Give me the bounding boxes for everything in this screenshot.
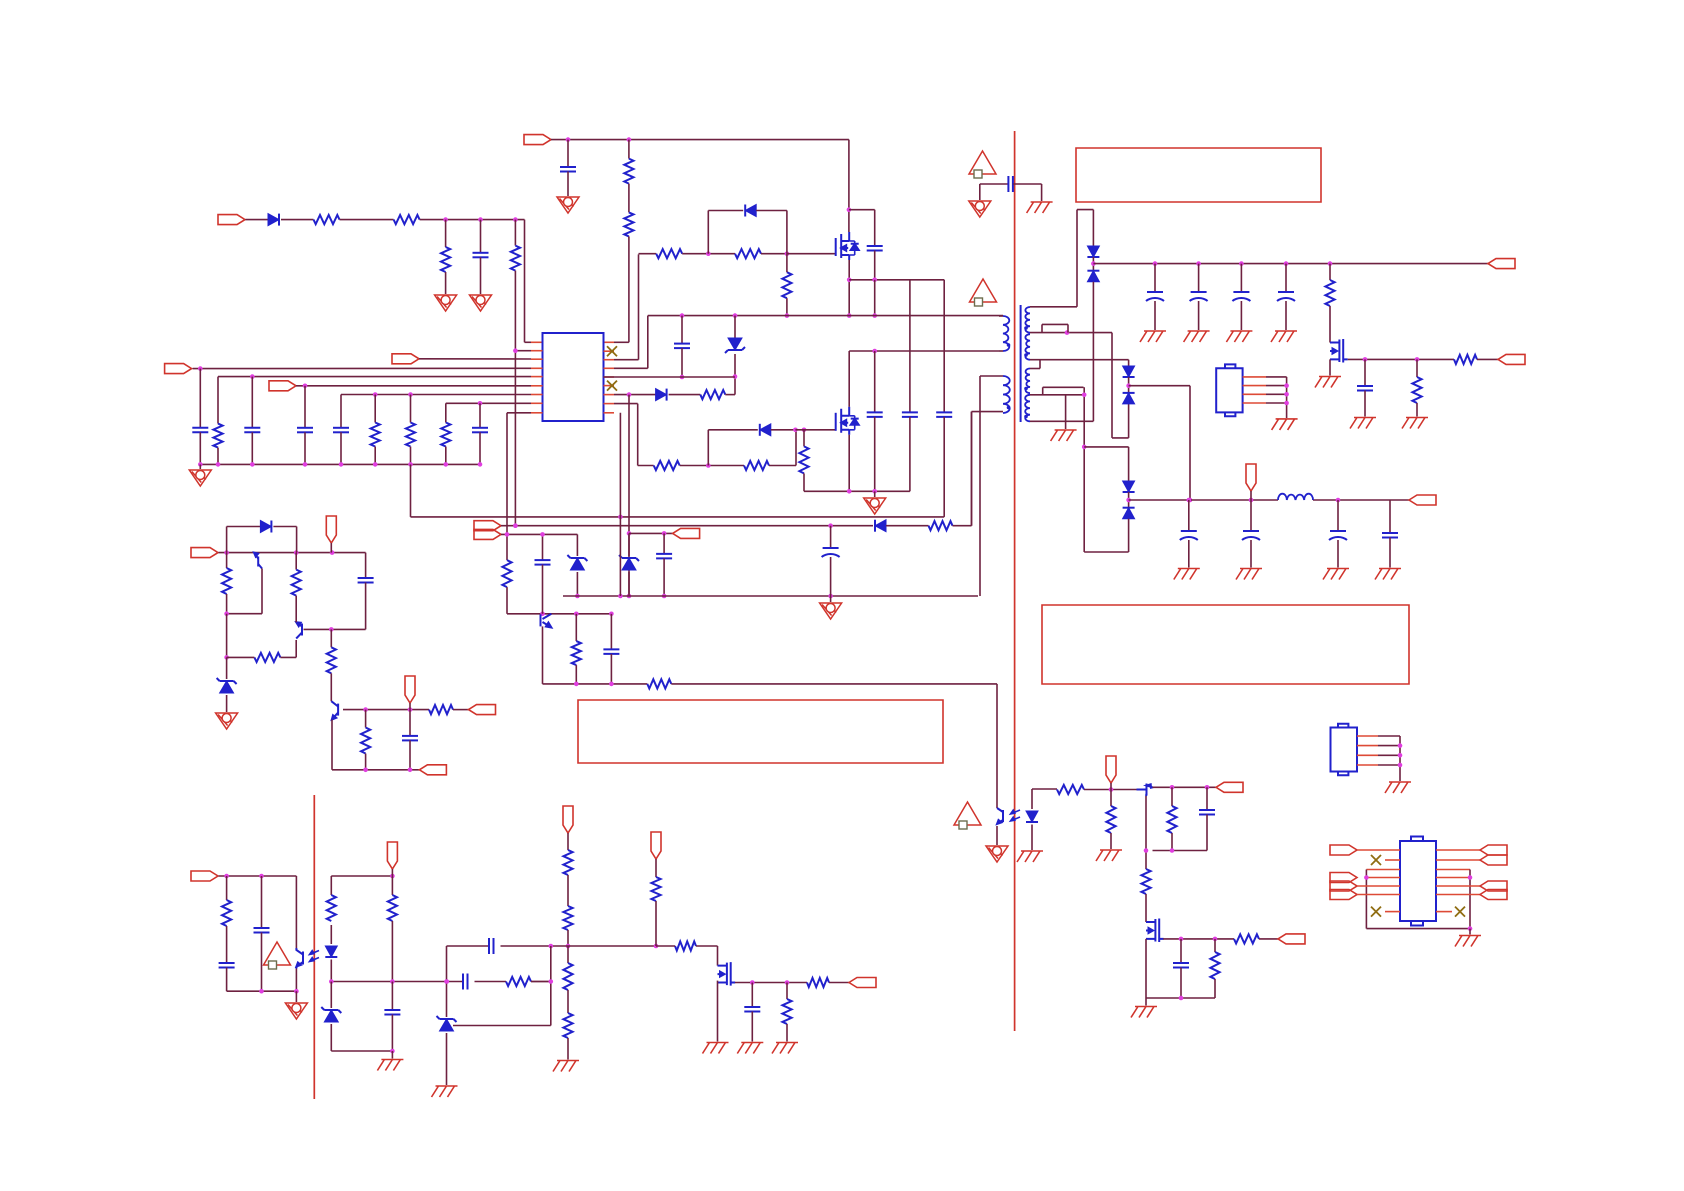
node junctions on input net xyxy=(443,217,448,222)
wire xyxy=(193,367,531,369)
ground xyxy=(1350,418,1376,429)
power input flag P1 xyxy=(218,215,245,225)
capacitor C24 xyxy=(535,559,551,561)
wire aux return xyxy=(971,412,973,526)
capacitor C28 xyxy=(219,962,235,964)
capacitor C4 xyxy=(251,377,253,428)
flag VFB xyxy=(392,354,419,364)
flag low xyxy=(419,765,446,775)
wire emitter xyxy=(1145,796,1147,851)
ground xyxy=(1375,569,1401,580)
wire 533 row xyxy=(629,532,673,534)
ground xyxy=(1236,569,1262,580)
X mark xyxy=(1436,911,1452,913)
ground xyxy=(199,464,201,469)
zener diode ZD3 xyxy=(628,533,630,556)
resistor R1 xyxy=(314,215,340,224)
flag U4 pin1 xyxy=(1330,845,1357,855)
resistor R3 xyxy=(445,220,447,247)
ground xyxy=(1272,419,1298,430)
resistor R13 xyxy=(782,272,791,298)
12V rail wire xyxy=(1129,499,1278,501)
resistor R45 xyxy=(1110,790,1112,807)
ground xyxy=(986,846,1008,862)
wire xyxy=(420,219,525,221)
resistor R35 xyxy=(563,906,572,930)
flag down Vs2 xyxy=(651,832,661,859)
wire xyxy=(725,394,735,396)
resistor R9 xyxy=(410,395,412,423)
MOSFET Q10 xyxy=(1146,919,1164,943)
resistor R31 xyxy=(226,876,228,900)
wire pin 394.6 diode row xyxy=(614,394,656,396)
ground xyxy=(1226,331,1252,342)
wire box outline xyxy=(1366,869,1400,871)
capacitor C6 xyxy=(340,395,342,428)
wire hop A xyxy=(1042,323,1068,325)
wire xyxy=(331,1050,392,1052)
chassis ground xyxy=(1041,184,1043,201)
output flag 24V xyxy=(1488,259,1515,269)
transformer T1 secondary winding 2 xyxy=(1025,334,1030,360)
wire pin 412.8 row xyxy=(507,412,531,414)
resistor R17 xyxy=(803,430,805,447)
wire xyxy=(614,403,638,405)
transformer T1 secondary winding 4 xyxy=(1025,395,1030,422)
wire xyxy=(829,982,849,984)
ground xyxy=(1131,1007,1157,1018)
MOSFET Q2 xyxy=(836,407,859,435)
zener diode ZD5 xyxy=(330,982,332,1009)
isolation barrier line xyxy=(1014,131,1016,1031)
wire xyxy=(953,525,972,527)
transistor Q5 xyxy=(257,557,259,567)
capacitor C33 xyxy=(751,983,753,1008)
capacitor C16 xyxy=(1285,264,1287,292)
resistor R10 xyxy=(445,403,447,422)
ground xyxy=(285,1003,307,1019)
transistor Q7 xyxy=(337,704,339,716)
wire xyxy=(524,220,526,343)
dual diode D6 xyxy=(1128,360,1130,366)
dual diode D7 xyxy=(1123,481,1135,492)
ground xyxy=(470,295,492,311)
resistor R15 xyxy=(654,461,680,470)
warning triangle 4 xyxy=(954,802,981,829)
ground xyxy=(1271,331,1297,342)
wire xyxy=(332,769,419,771)
capacitor C7 xyxy=(479,403,481,428)
resistor R48 xyxy=(1234,934,1259,943)
capacitor C32 xyxy=(462,974,464,990)
wire xyxy=(245,219,268,221)
wire xyxy=(619,413,621,596)
capacitor C30 xyxy=(391,982,393,1011)
resistor R19 xyxy=(1454,355,1477,364)
resistor R33 xyxy=(391,876,393,895)
IC U4 xyxy=(1400,841,1436,921)
ground xyxy=(432,1086,458,1097)
dual diode D5 xyxy=(1087,246,1099,257)
diode D1 xyxy=(268,214,279,226)
wire xyxy=(1084,551,1128,553)
resistor R4 xyxy=(514,220,516,246)
resistor R30 xyxy=(365,710,367,728)
capacitor C29 xyxy=(261,876,263,928)
optocoupler U2 phototransistor xyxy=(302,952,304,965)
X mark xyxy=(1385,911,1400,913)
MOSFET Q3 xyxy=(1330,339,1348,363)
ground xyxy=(1329,359,1331,375)
wire drain Q2 xyxy=(848,351,850,407)
resistor R38 xyxy=(563,1013,572,1038)
optocoupler U3 phototransistor xyxy=(996,806,998,808)
capacitor C12 xyxy=(943,280,945,413)
diode D9 xyxy=(226,527,228,553)
connector CN2 xyxy=(1331,728,1358,772)
resistor R12 xyxy=(735,249,761,258)
ground bus wire xyxy=(200,463,480,465)
wire xyxy=(1436,869,1470,871)
X mark xyxy=(1385,859,1400,861)
resistor R22 xyxy=(502,560,511,587)
winding polarity dots xyxy=(1007,343,1011,347)
wire drain Q1 xyxy=(848,140,850,232)
wire xyxy=(717,981,719,1042)
connector CN1 xyxy=(1216,368,1242,412)
wire xyxy=(219,552,366,554)
capacitor C2 xyxy=(567,140,569,167)
wire xyxy=(1366,877,1400,879)
optocoupler U3 light arrows xyxy=(1011,810,1021,814)
resistor R20 xyxy=(1416,359,1418,377)
output flag 2 xyxy=(1498,354,1525,364)
capacitor C34 xyxy=(1206,787,1208,810)
diode D8 xyxy=(875,520,886,532)
flags U4 right bottom xyxy=(1480,881,1507,891)
resistor R37 xyxy=(567,946,569,963)
wire xyxy=(671,683,997,685)
IC U1 right pin stubs xyxy=(604,350,615,352)
flags U4 left xyxy=(1330,873,1357,883)
output flag 12V xyxy=(1409,495,1436,505)
MOSFET Q1 xyxy=(836,232,859,260)
ground xyxy=(567,945,569,947)
snubber diode D2 xyxy=(707,211,709,254)
flag PROT xyxy=(849,978,876,988)
wire sec tap A xyxy=(1030,332,1112,334)
wire xyxy=(1153,850,1208,852)
capacitor C17 xyxy=(1364,359,1366,386)
no-connect X marks xyxy=(607,346,617,356)
resistor R23 xyxy=(575,614,577,641)
transformer T1 primary winding 2 xyxy=(1003,376,1010,413)
ground xyxy=(703,1043,729,1054)
capacitor C14 xyxy=(1198,264,1200,292)
resistor R14 xyxy=(700,390,725,399)
optocoupler U2 light arrows xyxy=(310,951,320,955)
primary ground bus wire xyxy=(804,490,910,492)
capacitor C35 xyxy=(1180,939,1182,963)
ground xyxy=(830,596,832,602)
flag COMP xyxy=(269,381,296,391)
wire U4 right pins xyxy=(1436,849,1480,851)
wire xyxy=(506,413,508,560)
resistor R6 xyxy=(628,184,630,213)
connector CN1 pin wires xyxy=(1243,376,1266,378)
resistor R11 xyxy=(656,249,682,258)
wire xyxy=(886,525,929,527)
flag FB xyxy=(191,871,218,881)
flag out xyxy=(1216,782,1243,792)
optocoupler U3 LED xyxy=(1031,789,1033,809)
flag CT xyxy=(165,364,192,374)
wire xyxy=(227,990,297,992)
transformer T1 secondary winding 3 xyxy=(1026,369,1030,394)
ground xyxy=(553,1061,579,1072)
wire aux top xyxy=(980,375,1003,377)
capacitor C31 xyxy=(488,938,490,954)
zener diode ZD4 xyxy=(226,657,228,679)
resistor R42 xyxy=(807,978,829,987)
PWM controller IC U1 xyxy=(543,333,604,421)
resistor R21 xyxy=(929,521,953,530)
ground xyxy=(1402,418,1428,429)
wire xyxy=(656,945,675,947)
capacitor C5 xyxy=(304,386,306,428)
wire xyxy=(1145,851,1147,870)
capacitor C13 xyxy=(1154,264,1156,292)
resistor R28 xyxy=(330,629,332,647)
wire xyxy=(543,683,648,685)
diode D3 xyxy=(656,389,667,401)
capacitor C20 xyxy=(1337,500,1339,531)
wire xyxy=(1477,358,1498,360)
wire xyxy=(447,945,490,947)
warning triangle 1 xyxy=(969,151,996,178)
snubber diode D4 xyxy=(707,430,709,466)
flag enable xyxy=(191,548,218,558)
resistor R2 xyxy=(394,215,420,224)
note box 1 xyxy=(1076,148,1321,202)
wire pin 377 xyxy=(604,376,736,378)
resistor R16 xyxy=(744,461,769,470)
wire sec top to rectifier xyxy=(1030,306,1077,308)
ground xyxy=(874,491,876,497)
capacitor C1 xyxy=(480,220,482,253)
resistor R7 xyxy=(217,377,219,424)
flag DIM xyxy=(1278,934,1305,944)
rail wire B xyxy=(501,525,873,527)
capacitor C27 xyxy=(409,710,411,736)
capacitor C15 xyxy=(1240,264,1242,292)
capacitor C3 xyxy=(199,369,201,428)
wire to lower rail xyxy=(410,464,412,517)
transformer T1 primary winding 1 xyxy=(1003,316,1009,351)
ground xyxy=(1174,569,1200,580)
transistor Q6 xyxy=(301,624,303,636)
wire xyxy=(446,946,448,1017)
wire xyxy=(507,613,611,615)
transistor Q9 xyxy=(1146,784,1148,796)
snubber capacitor C8 xyxy=(849,209,875,211)
capacitor C21 xyxy=(1389,500,1391,533)
wire pin 394.5 row xyxy=(341,394,531,396)
wire from pin to lower flag net xyxy=(628,395,630,596)
wire xyxy=(1145,939,1147,998)
resistor R8 xyxy=(374,395,376,423)
resistor R34 xyxy=(563,850,572,875)
wire xyxy=(1357,885,1400,887)
resistor R47 xyxy=(1141,869,1150,894)
wire to IC pin xyxy=(614,341,629,343)
warning triangle 3 xyxy=(264,942,291,969)
wire xyxy=(1129,385,1190,387)
wire xyxy=(1366,928,1470,930)
resistor R25 xyxy=(226,553,228,568)
capacitor C23 xyxy=(830,526,832,548)
warning triangle 2 xyxy=(970,279,997,306)
capacitor C10 xyxy=(874,351,876,412)
wire xyxy=(295,876,297,948)
ground xyxy=(216,713,238,729)
wire xyxy=(453,709,469,711)
resistor R5 xyxy=(628,140,630,159)
resistor R32 xyxy=(330,876,332,895)
wire flag B net xyxy=(501,533,577,535)
wire xyxy=(761,253,787,255)
wire Q10 out xyxy=(1163,938,1234,940)
optocoupler U2 LED xyxy=(330,925,332,944)
ground xyxy=(557,197,579,213)
feedback wire xyxy=(331,981,463,983)
wire source Q1 xyxy=(848,260,850,316)
wire xyxy=(1357,849,1400,851)
wire xyxy=(542,534,544,560)
wire xyxy=(669,394,701,396)
ground xyxy=(377,1060,403,1071)
wire xyxy=(1111,333,1113,438)
wire xyxy=(227,613,262,615)
ground xyxy=(1323,569,1349,580)
ground xyxy=(1096,850,1122,861)
capacitor C25 xyxy=(610,614,612,650)
VCC rail wire xyxy=(551,139,849,141)
flag down VCC2 xyxy=(1246,464,1256,491)
flag down Vaux xyxy=(326,516,336,543)
wire sec bottom xyxy=(1030,420,1093,422)
wire center tap xyxy=(1030,394,1084,396)
resistor R29 xyxy=(429,705,453,714)
resistor R26 xyxy=(254,653,280,662)
wire xyxy=(849,279,944,281)
ground xyxy=(1017,851,1043,862)
wire pin 377 row xyxy=(218,376,531,378)
ground xyxy=(435,295,457,311)
resistor R43 xyxy=(786,983,788,1000)
flags U4 right top xyxy=(1480,845,1507,855)
wire xyxy=(1146,997,1215,999)
wire xyxy=(1032,788,1057,790)
inductor L1 xyxy=(1278,494,1313,500)
transformer T1 secondary winding 1 xyxy=(1025,307,1030,333)
zener reference TL431 xyxy=(437,1016,457,1031)
ground xyxy=(737,1043,763,1054)
wire xyxy=(1084,789,1137,791)
wire xyxy=(296,385,531,387)
IC U1 left pin stubs xyxy=(531,350,543,352)
wire xyxy=(874,280,876,316)
capacitor C11 xyxy=(909,280,911,413)
ground xyxy=(1051,430,1077,441)
connector CN2 pin wires xyxy=(1357,735,1378,737)
wire base Q6 xyxy=(304,628,366,630)
wire xyxy=(531,981,551,983)
wire xyxy=(769,465,796,467)
transformer core xyxy=(1020,305,1022,422)
flag down Vaux2 xyxy=(405,676,415,703)
wire xyxy=(1084,446,1128,448)
zener diode ZD2 xyxy=(567,555,587,570)
wire xyxy=(340,219,394,221)
wire xyxy=(682,253,735,255)
note box 3 xyxy=(1042,605,1409,684)
flag down Vs xyxy=(563,806,573,833)
wire source Q2 xyxy=(848,435,850,492)
wire xyxy=(680,465,744,467)
wire xyxy=(453,1025,551,1027)
VCC flag xyxy=(524,135,551,145)
resistor R24 xyxy=(647,679,671,688)
resistor R49 xyxy=(1214,939,1216,952)
resistor R44 xyxy=(1057,785,1084,794)
resistor R41 xyxy=(675,941,696,950)
wire xyxy=(219,875,297,877)
note box 2 xyxy=(578,700,943,763)
wire xyxy=(331,875,392,877)
capacitor C22 xyxy=(663,533,665,554)
wire Q3 out xyxy=(1348,358,1454,360)
resistor R46 xyxy=(1171,787,1173,806)
wire Q8 out xyxy=(735,982,807,984)
wire xyxy=(1083,387,1085,552)
wire sec tap B xyxy=(1030,359,1129,361)
primary return bus wire xyxy=(563,595,978,597)
switch node rail wire xyxy=(648,315,1003,317)
output rail wire 24V xyxy=(1093,263,1488,265)
transistor Q4 xyxy=(540,614,542,626)
capacitor C18 xyxy=(1188,500,1190,531)
wire xyxy=(1259,938,1278,940)
ground xyxy=(1184,331,1210,342)
resistor R36 xyxy=(506,977,531,986)
wire pin 403.3 row xyxy=(446,402,531,404)
wire xyxy=(514,351,516,526)
flag down FB2 xyxy=(387,842,397,869)
wire gate row 1 xyxy=(638,254,640,359)
resistor R39 xyxy=(651,877,660,901)
Y-capacitor CY1 xyxy=(980,183,1009,185)
capacitor C9 xyxy=(681,316,683,344)
capacitor C19 xyxy=(1250,500,1252,531)
ground xyxy=(1455,936,1481,947)
wire base Q7 xyxy=(343,709,429,711)
primary bottom wire xyxy=(849,350,999,352)
flag down Vc xyxy=(1106,756,1116,783)
ground xyxy=(1140,331,1166,342)
wire aux bottom xyxy=(972,411,1004,413)
wire xyxy=(281,219,314,221)
